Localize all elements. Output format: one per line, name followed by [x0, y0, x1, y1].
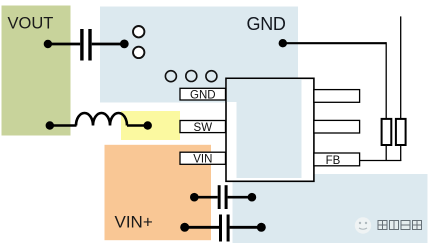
wire GND horizontal: [283, 42, 386, 44]
wire FB to divider node: [360, 160, 402, 162]
green highlight VOUT region: [2, 6, 71, 136]
node VOUT dot: [44, 40, 52, 48]
pin box FB with label: [314, 153, 360, 167]
capacitor C2 plates: [218, 185, 221, 209]
watermark logo: [355, 217, 371, 233]
orange highlight VIN region: [105, 145, 212, 240]
pin box GND with label: [180, 88, 226, 101]
capacitor C1 plates: [80, 29, 83, 61]
yellow highlight SW region: [121, 111, 180, 140]
resistor R1: [382, 119, 392, 145]
blue highlight bottom region: [233, 174, 428, 243]
wire to C2 left plate: [194, 196, 217, 199]
svg-text:VIN: VIN: [193, 154, 212, 166]
wire to C3 left plate: [185, 226, 219, 229]
wire from C2 right plate: [228, 196, 252, 199]
svg-text:VIN+: VIN+: [115, 213, 153, 232]
row of three via circles: [165, 71, 217, 82]
pin box SW with label: [180, 121, 226, 134]
wire from C3 right plate: [230, 226, 262, 229]
svg-text:SW: SW: [194, 122, 213, 134]
right pin box 2: [314, 120, 360, 133]
wire R1 bottom to FB net: [385, 145, 387, 161]
wire VOUT node to C1: [48, 43, 80, 46]
resistor R2: [396, 119, 406, 145]
blue highlight IC interior top-left corner: [227, 79, 237, 102]
node C3 left dot: [180, 223, 189, 232]
blue highlight IC interior: [237, 79, 302, 178]
wire to L1: [50, 124, 77, 127]
IC body U1: [226, 78, 314, 181]
node C3 right dot: [257, 223, 266, 232]
output sense line to R2: [400, 16, 402, 119]
watermark text glyph blocks: [378, 221, 422, 230]
via pair circles: [133, 26, 144, 58]
wire C1 to node: [92, 43, 125, 46]
node C2 right dot: [248, 193, 257, 202]
wire GND down to R1: [385, 42, 387, 119]
pin box VIN with label: [180, 152, 226, 165]
GND node dot: [279, 39, 287, 47]
svg-text:VOUT: VOUT: [8, 15, 54, 33]
wire L1 to SW node: [127, 124, 148, 127]
inductor L1: [76, 113, 127, 126]
node C2 left dot: [190, 193, 199, 202]
node SW dot: [144, 121, 152, 129]
right pin box 1: [314, 90, 360, 103]
node dot at L1 left: [46, 121, 54, 129]
blue highlight top region: [100, 7, 298, 103]
svg-text:GND: GND: [247, 14, 286, 34]
svg-text:FB: FB: [326, 155, 341, 167]
svg-text:GND: GND: [190, 89, 216, 101]
node dot at C1 right: [120, 40, 129, 49]
capacitor C3 plates: [219, 215, 222, 242]
wire R2 bottom to FB net: [400, 145, 402, 162]
